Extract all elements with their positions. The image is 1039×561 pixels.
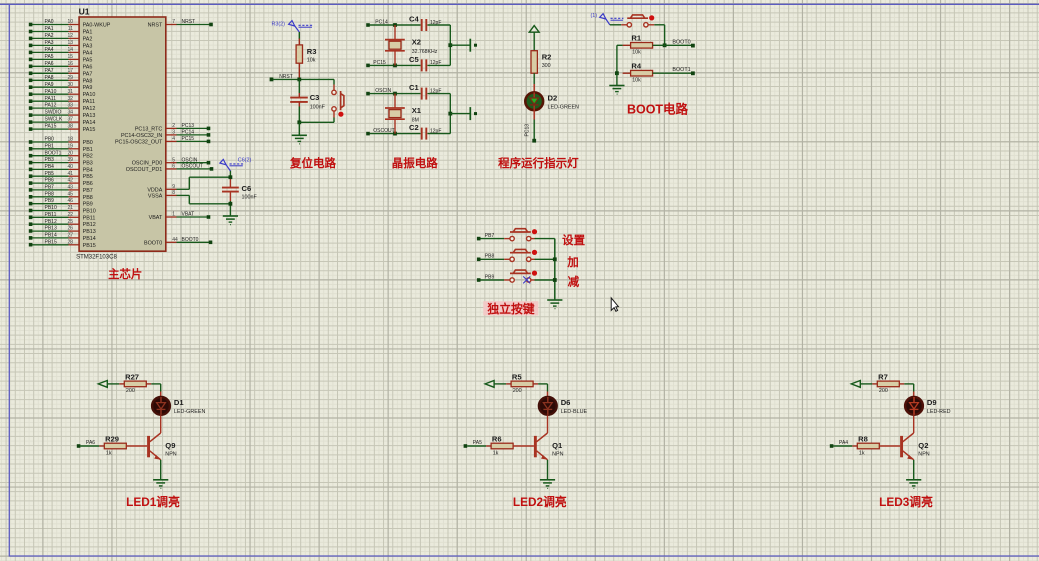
svg-text:PB0: PB0 bbox=[83, 140, 93, 146]
svg-text:PB13: PB13 bbox=[45, 226, 57, 232]
svg-text:11: 11 bbox=[68, 26, 73, 32]
svg-text:100nF: 100nF bbox=[242, 195, 258, 201]
svg-text:13: 13 bbox=[67, 40, 73, 46]
svg-text:10k: 10k bbox=[632, 50, 641, 56]
svg-text:PC15: PC15 bbox=[373, 60, 386, 66]
svg-text:12pF: 12pF bbox=[430, 128, 441, 134]
svg-text:1k: 1k bbox=[859, 450, 865, 456]
svg-text:37: 37 bbox=[67, 117, 73, 123]
svg-text:16: 16 bbox=[67, 61, 73, 67]
svg-text:(1): (1) bbox=[591, 13, 598, 19]
svg-text:PB10: PB10 bbox=[45, 205, 57, 211]
svg-text:PA8: PA8 bbox=[45, 75, 54, 81]
svg-text:PA14: PA14 bbox=[83, 120, 96, 126]
svg-text:PA0: PA0 bbox=[45, 19, 54, 25]
svg-text:PB5: PB5 bbox=[83, 174, 93, 180]
svg-text:300: 300 bbox=[542, 63, 551, 69]
svg-text:PA10: PA10 bbox=[45, 89, 57, 95]
svg-text:6: 6 bbox=[172, 164, 175, 170]
svg-text:D1: D1 bbox=[174, 398, 184, 407]
svg-text:PA5: PA5 bbox=[45, 54, 54, 60]
svg-text:10: 10 bbox=[67, 19, 73, 25]
svg-text:D9: D9 bbox=[927, 398, 937, 407]
svg-text:PB15: PB15 bbox=[83, 243, 96, 249]
svg-text:12pF: 12pF bbox=[430, 88, 441, 94]
svg-text:OSCIN: OSCIN bbox=[375, 88, 391, 94]
svg-text:40: 40 bbox=[67, 164, 73, 170]
svg-text:BOOT1: BOOT1 bbox=[672, 67, 690, 73]
svg-text:BOOT0: BOOT0 bbox=[144, 240, 162, 246]
svg-text:D6: D6 bbox=[561, 398, 571, 407]
svg-text:38: 38 bbox=[67, 124, 73, 130]
svg-text:OSCIN: OSCIN bbox=[182, 157, 198, 163]
svg-text:PB3: PB3 bbox=[45, 157, 55, 163]
svg-text:R7: R7 bbox=[878, 372, 888, 381]
svg-text:43: 43 bbox=[67, 185, 73, 191]
svg-text:NRST: NRST bbox=[279, 74, 293, 80]
svg-text:PC14: PC14 bbox=[375, 19, 388, 25]
svg-text:R29: R29 bbox=[105, 434, 119, 443]
svg-text:PB5: PB5 bbox=[45, 171, 55, 177]
svg-text:LED-RED: LED-RED bbox=[927, 409, 951, 415]
svg-text:NRST: NRST bbox=[148, 23, 163, 29]
svg-text:R27: R27 bbox=[125, 372, 139, 381]
svg-text:33: 33 bbox=[67, 103, 73, 109]
svg-text:PA11: PA11 bbox=[45, 96, 57, 102]
svg-text:U1: U1 bbox=[79, 7, 90, 17]
svg-text:PA10: PA10 bbox=[83, 92, 96, 98]
svg-text:PB3: PB3 bbox=[83, 161, 93, 167]
svg-text:R2: R2 bbox=[542, 53, 552, 62]
svg-text:PB6: PB6 bbox=[45, 178, 55, 184]
svg-text:PA5: PA5 bbox=[473, 440, 482, 446]
svg-text:BOOT0: BOOT0 bbox=[182, 237, 199, 243]
svg-text:BOOT电路: BOOT电路 bbox=[627, 101, 689, 116]
svg-text:R4: R4 bbox=[631, 62, 641, 71]
svg-text:LED-GREEN: LED-GREEN bbox=[548, 105, 580, 111]
svg-text:200: 200 bbox=[126, 388, 135, 394]
svg-text:PB11: PB11 bbox=[83, 215, 96, 221]
svg-text:PB12: PB12 bbox=[83, 222, 96, 228]
svg-text:26: 26 bbox=[67, 226, 73, 232]
svg-text:100nF: 100nF bbox=[310, 105, 326, 111]
svg-text:VSSA: VSSA bbox=[148, 193, 163, 199]
svg-text:NPN: NPN bbox=[165, 451, 176, 457]
svg-text:29: 29 bbox=[67, 75, 73, 81]
svg-text:18: 18 bbox=[67, 137, 73, 143]
svg-text:复位电路: 复位电路 bbox=[289, 156, 336, 170]
svg-text:PB10: PB10 bbox=[83, 209, 96, 215]
svg-text:C6(2): C6(2) bbox=[238, 157, 252, 163]
svg-text:PA6: PA6 bbox=[45, 61, 54, 67]
svg-text:17: 17 bbox=[67, 68, 73, 74]
svg-text:30: 30 bbox=[67, 82, 73, 88]
svg-text:PA8: PA8 bbox=[83, 78, 93, 84]
svg-text:NPN: NPN bbox=[552, 451, 563, 457]
svg-text:42: 42 bbox=[67, 178, 73, 184]
svg-text:D2: D2 bbox=[548, 93, 558, 102]
svg-text:PA4: PA4 bbox=[83, 50, 93, 56]
svg-text:21: 21 bbox=[67, 205, 73, 211]
svg-text:PA1: PA1 bbox=[45, 26, 54, 32]
svg-text:设置: 设置 bbox=[562, 233, 585, 247]
svg-text:20: 20 bbox=[67, 150, 73, 156]
svg-text:19: 19 bbox=[67, 143, 73, 149]
svg-text:12pF: 12pF bbox=[430, 20, 441, 26]
svg-text:45: 45 bbox=[67, 191, 73, 197]
svg-text:41: 41 bbox=[67, 171, 73, 177]
svg-text:7: 7 bbox=[172, 19, 175, 25]
svg-text:VDDA: VDDA bbox=[147, 187, 162, 193]
svg-text:LED-BLUE: LED-BLUE bbox=[561, 409, 588, 415]
svg-text:31: 31 bbox=[67, 89, 73, 95]
svg-text:14: 14 bbox=[67, 47, 73, 53]
svg-text:R5: R5 bbox=[512, 372, 522, 381]
svg-text:程序运行指示灯: 程序运行指示灯 bbox=[498, 156, 579, 170]
svg-text:PB9: PB9 bbox=[45, 198, 55, 204]
svg-text:PC14: PC14 bbox=[182, 130, 195, 136]
svg-text:8: 8 bbox=[172, 190, 175, 196]
svg-text:OSCOUT_PD1: OSCOUT_PD1 bbox=[126, 167, 163, 173]
svg-text:32: 32 bbox=[67, 96, 73, 102]
svg-text:X1: X1 bbox=[412, 106, 422, 115]
svg-text:LED1调亮: LED1调亮 bbox=[126, 495, 180, 509]
svg-text:PA6: PA6 bbox=[86, 440, 95, 446]
svg-text:BOOT0: BOOT0 bbox=[672, 39, 690, 45]
svg-text:12: 12 bbox=[67, 33, 73, 39]
svg-text:NPN: NPN bbox=[918, 451, 929, 457]
svg-text:1k: 1k bbox=[106, 450, 112, 456]
svg-text:减: 减 bbox=[568, 274, 580, 288]
svg-text:PB8: PB8 bbox=[485, 254, 495, 260]
svg-text:VBAT: VBAT bbox=[182, 212, 195, 218]
svg-text:PA9: PA9 bbox=[45, 82, 54, 88]
svg-text:PB9: PB9 bbox=[485, 274, 495, 280]
svg-text:OSCOUT: OSCOUT bbox=[373, 128, 394, 134]
svg-text:加: 加 bbox=[566, 255, 579, 269]
svg-text:PB14: PB14 bbox=[45, 233, 57, 239]
svg-text:Q2: Q2 bbox=[918, 441, 928, 450]
svg-text:Q9: Q9 bbox=[165, 441, 175, 450]
svg-text:4: 4 bbox=[172, 136, 175, 142]
svg-text:SWDIO: SWDIO bbox=[45, 110, 62, 116]
svg-text:R3(2): R3(2) bbox=[272, 21, 286, 27]
svg-text:2: 2 bbox=[172, 123, 175, 129]
svg-text:C3: C3 bbox=[310, 93, 320, 102]
svg-text:PB1: PB1 bbox=[83, 147, 93, 153]
svg-text:8M: 8M bbox=[412, 118, 419, 124]
svg-text:PB13: PB13 bbox=[83, 229, 96, 235]
svg-text:SWCLK: SWCLK bbox=[45, 117, 63, 123]
svg-text:200: 200 bbox=[513, 388, 522, 394]
svg-text:PA7: PA7 bbox=[83, 71, 93, 77]
svg-text:PA3: PA3 bbox=[45, 40, 54, 46]
svg-text:LED-GREEN: LED-GREEN bbox=[174, 409, 206, 415]
svg-text:C5: C5 bbox=[409, 55, 419, 64]
svg-text:Q1: Q1 bbox=[552, 441, 563, 450]
svg-text:200: 200 bbox=[879, 388, 888, 394]
svg-text:R1: R1 bbox=[631, 34, 641, 43]
svg-text:PB4: PB4 bbox=[83, 167, 93, 173]
svg-text:27: 27 bbox=[67, 233, 73, 239]
svg-text:10k: 10k bbox=[307, 57, 316, 63]
svg-text:39: 39 bbox=[67, 157, 73, 163]
svg-text:PB4: PB4 bbox=[45, 164, 55, 170]
svg-text:PA13: PA13 bbox=[83, 113, 96, 119]
svg-text:BOOT1: BOOT1 bbox=[45, 150, 62, 156]
svg-text:PA15: PA15 bbox=[45, 124, 57, 130]
svg-text:5: 5 bbox=[172, 157, 175, 163]
svg-text:34: 34 bbox=[67, 110, 73, 116]
svg-text:PB6: PB6 bbox=[83, 181, 93, 187]
svg-text:PA1: PA1 bbox=[83, 30, 93, 36]
svg-text:PA9: PA9 bbox=[83, 85, 93, 91]
svg-text:LED3调亮: LED3调亮 bbox=[879, 495, 933, 509]
svg-text:PB15: PB15 bbox=[45, 239, 57, 245]
svg-text:X2: X2 bbox=[412, 38, 421, 47]
svg-text:PB7: PB7 bbox=[83, 188, 93, 194]
svg-text:OSCOUT: OSCOUT bbox=[182, 164, 203, 170]
svg-text:10k: 10k bbox=[632, 78, 641, 84]
svg-text:PC13: PC13 bbox=[525, 124, 531, 137]
svg-text:28: 28 bbox=[67, 239, 73, 245]
svg-text:PA6: PA6 bbox=[83, 64, 93, 70]
svg-text:PC13_RTC: PC13_RTC bbox=[135, 126, 163, 132]
svg-text:PA7: PA7 bbox=[45, 68, 54, 74]
svg-text:PC15: PC15 bbox=[182, 136, 195, 142]
svg-text:PA5: PA5 bbox=[83, 57, 93, 63]
svg-text:PB14: PB14 bbox=[83, 236, 96, 242]
svg-text:PA0-WKUP: PA0-WKUP bbox=[83, 23, 111, 29]
svg-text:PB7: PB7 bbox=[485, 233, 495, 239]
svg-text:R3: R3 bbox=[307, 47, 317, 56]
svg-text:独立按键: 独立按键 bbox=[486, 302, 534, 316]
svg-text:C6: C6 bbox=[242, 184, 252, 193]
svg-text:PB2: PB2 bbox=[83, 154, 93, 160]
svg-text:STM32F103C8: STM32F103C8 bbox=[76, 255, 117, 261]
svg-text:46: 46 bbox=[67, 198, 73, 204]
svg-text:C4: C4 bbox=[409, 15, 419, 24]
svg-text:PC15-OSC32_OUT: PC15-OSC32_OUT bbox=[115, 139, 163, 145]
svg-text:OSCIN_PD0: OSCIN_PD0 bbox=[132, 161, 163, 167]
svg-text:NRST: NRST bbox=[182, 19, 196, 25]
svg-text:1k: 1k bbox=[493, 450, 499, 456]
svg-text:PB1: PB1 bbox=[45, 143, 55, 149]
svg-text:25: 25 bbox=[67, 219, 73, 225]
svg-text:主芯片: 主芯片 bbox=[108, 267, 142, 281]
svg-text:PA4: PA4 bbox=[45, 47, 54, 53]
svg-text:9: 9 bbox=[172, 184, 175, 190]
svg-text:PB7: PB7 bbox=[45, 185, 55, 191]
svg-text:PB8: PB8 bbox=[45, 191, 55, 197]
svg-text:PA2: PA2 bbox=[45, 33, 54, 39]
svg-text:PA15: PA15 bbox=[83, 127, 96, 133]
svg-text:PB9: PB9 bbox=[83, 202, 93, 208]
svg-text:22: 22 bbox=[67, 212, 73, 218]
svg-text:C2: C2 bbox=[409, 123, 419, 132]
svg-text:PA11: PA11 bbox=[83, 99, 95, 105]
svg-text:VBAT: VBAT bbox=[149, 215, 163, 221]
svg-text:PA3: PA3 bbox=[83, 43, 93, 49]
svg-text:32.768KHz: 32.768KHz bbox=[412, 49, 438, 55]
svg-text:PB11: PB11 bbox=[45, 212, 57, 218]
svg-text:R8: R8 bbox=[858, 434, 868, 443]
svg-text:PC13: PC13 bbox=[182, 123, 195, 129]
svg-text:PB12: PB12 bbox=[45, 219, 57, 225]
svg-text:PA12: PA12 bbox=[83, 106, 96, 112]
svg-text:44: 44 bbox=[172, 237, 178, 243]
svg-text:R6: R6 bbox=[492, 434, 502, 443]
svg-text:晶振电路: 晶振电路 bbox=[392, 156, 438, 170]
svg-text:PC14-OSC32_IN: PC14-OSC32_IN bbox=[121, 133, 162, 139]
svg-text:LED2调亮: LED2调亮 bbox=[513, 495, 567, 509]
svg-text:C1: C1 bbox=[409, 83, 419, 92]
svg-text:PB0: PB0 bbox=[45, 137, 55, 143]
svg-text:15: 15 bbox=[67, 54, 73, 60]
svg-text:3: 3 bbox=[172, 130, 175, 136]
svg-text:1: 1 bbox=[172, 212, 175, 218]
svg-text:PA4: PA4 bbox=[839, 440, 848, 446]
svg-text:PA12: PA12 bbox=[45, 103, 57, 109]
svg-text:12pF: 12pF bbox=[430, 60, 441, 66]
svg-text:PA2: PA2 bbox=[83, 36, 93, 42]
svg-text:PB8: PB8 bbox=[83, 195, 93, 201]
